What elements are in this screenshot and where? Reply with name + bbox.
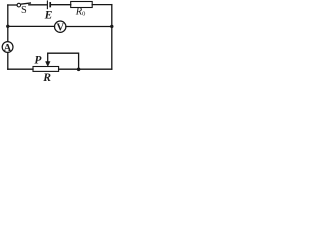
junction dot bottom (slider return to bottom wire)	[77, 68, 81, 72]
junction dot left (node between ammeter branch and voltmeter wire)	[6, 25, 9, 28]
wire voltmeter left lead	[8, 25, 55, 27]
svg-text:S: S	[21, 5, 27, 16]
voltmeter V1 circle	[55, 21, 66, 32]
wire left vertical upper	[7, 5, 9, 69]
battery E short thick plate	[49, 3, 51, 7]
battery E long plate	[46, 1, 48, 9]
resistor R0 box	[71, 2, 93, 8]
svg-text:A: A	[4, 43, 12, 54]
switch S blade	[21, 3, 31, 4]
rheostat slider arrowhead	[46, 62, 50, 67]
wire right vertical	[111, 5, 113, 70]
wire R0 to top-right corner	[92, 4, 112, 6]
rheostat slider wire (arrow shaft, up and over to bottom dot)	[48, 53, 79, 69]
wire bottom-left run	[8, 68, 33, 70]
wire voltmeter right lead	[66, 26, 112, 28]
svg-text:V: V	[57, 22, 65, 33]
wire top-left segment	[8, 4, 17, 6]
junction dot right (voltmeter wire to right vertical)	[110, 25, 113, 28]
switch S pivot circle	[17, 3, 21, 7]
svg-text:R: R	[42, 71, 51, 83]
wire battery to resistor R0	[51, 4, 70, 6]
ammeter A1 circle	[2, 42, 13, 53]
wire switch to battery	[29, 4, 47, 6]
wire bottom run right (dot to corner)	[59, 68, 112, 70]
svg-text:P: P	[34, 55, 42, 67]
svg-text:E: E	[44, 10, 53, 22]
rheostat R box	[33, 67, 59, 72]
